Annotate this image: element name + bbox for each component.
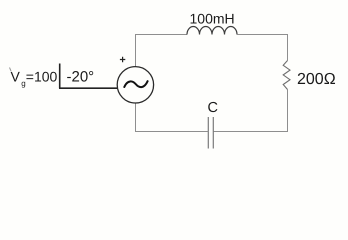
capacitor C left plate: [207, 117, 209, 149]
label Vg=100: [11, 69, 58, 88]
ac source sine symbol: [124, 81, 147, 87]
wire: bottom rail left of capacitor + left vertical to source bottom: [136, 103, 209, 131]
label C: [208, 100, 218, 116]
ac source V1 circle: [117, 67, 153, 103]
wire: left vertical + top rail left of inductor: [136, 35, 188, 67]
angle symbol vertical bar: [59, 64, 61, 89]
svg-text:100mH: 100mH: [190, 11, 235, 27]
svg-text:-20°: -20°: [67, 69, 95, 86]
label 100mH: [190, 11, 235, 27]
label -20 degrees: [67, 69, 95, 86]
angle symbol underline: [59, 87, 117, 89]
svg-text:=100: =100: [26, 69, 58, 85]
plus polarity mark: [120, 57, 125, 62]
inductor L1 100mH: [187, 27, 237, 35]
resistor R1 zigzag: [283, 61, 290, 90]
svg-text:C: C: [208, 100, 218, 116]
svg-text:V: V: [11, 69, 21, 85]
wire: right vertical below resistor + bottom rail right of capacitor: [213, 90, 287, 132]
svg-text:200Ω: 200Ω: [297, 71, 336, 88]
wire: top rail right of inductor + right vertical above resistor: [237, 35, 288, 61]
capacitor C right plate: [212, 117, 214, 149]
label 200 ohm: [297, 71, 336, 88]
stray tick before V: [10, 68, 12, 72]
